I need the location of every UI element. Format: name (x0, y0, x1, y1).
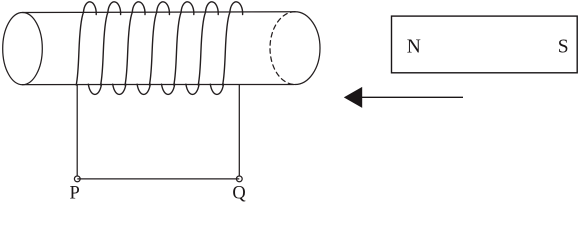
magnet body (392, 16, 578, 73)
coil bottom arc 2 (113, 84, 126, 94)
coil turn 6 (198, 2, 218, 85)
coil bottom arc 3 (137, 84, 150, 94)
svg-text:P: P (70, 184, 80, 203)
cylinder bottom line (23, 84, 295, 86)
arrow head (344, 87, 362, 108)
cylinder right end solid arc (295, 12, 320, 85)
coil bottom arc 6 (210, 84, 223, 94)
wire between terminals (77, 178, 239, 180)
coil turn 4 (149, 2, 169, 85)
coil turn 5 (174, 2, 194, 85)
coil bottom arc 5 (186, 84, 199, 94)
terminal circle Q (236, 176, 242, 182)
svg-text:Q: Q (232, 184, 246, 203)
wire right lead from coil to terminal Q (238, 85, 240, 176)
coil turn 2 (101, 2, 121, 85)
arrow shaft (magnet motion toward coil) (362, 96, 463, 98)
cylinder right end dashed arc (270, 12, 295, 85)
svg-text:S: S (558, 37, 569, 58)
coil bottom arc 4 (162, 84, 175, 94)
coil bottom arc 1 (88, 84, 101, 94)
svg-text:N: N (407, 37, 421, 58)
wire left lead from coil to terminal P (76, 85, 78, 176)
coil turn 7 (223, 2, 243, 85)
cylinder left end ellipse (3, 13, 43, 85)
terminal circle P (74, 176, 80, 182)
coil turn 3 (125, 2, 145, 85)
coil turn 1 (76, 2, 96, 85)
cylinder top line (23, 11, 296, 14)
